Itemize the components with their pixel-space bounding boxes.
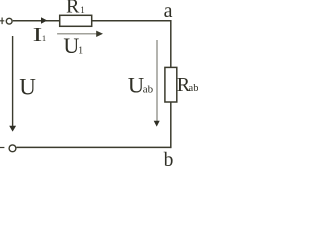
resistor R1	[60, 15, 92, 26]
terminal circle bottom-left (-)	[9, 145, 16, 152]
svg-text:1: 1	[42, 33, 46, 43]
svg-text:Uab: Uab	[128, 72, 154, 97]
wire right lower (Rab down to corner b)	[170, 102, 172, 148]
voltage arrow Uab	[154, 40, 160, 127]
resistor Rab	[165, 67, 177, 102]
terminal - sign	[0, 147, 4, 149]
svg-text:a: a	[164, 0, 173, 22]
svg-text:b: b	[164, 150, 174, 167]
svg-text:U: U	[19, 74, 36, 99]
svg-text:R1: R1	[66, 0, 85, 18]
svg-text:I: I	[33, 24, 43, 46]
svg-text:U1: U1	[63, 33, 83, 58]
wire top from R1 to corner a	[92, 20, 172, 22]
wire bottom from corner b to - terminal	[17, 146, 172, 148]
wire top-left from + terminal to R1	[13, 20, 60, 22]
svg-text:Rab: Rab	[177, 74, 198, 96]
terminal + sign	[0, 18, 4, 25]
voltage arrow U	[9, 36, 16, 132]
terminal circle top-left (+)	[6, 18, 12, 24]
current arrow I1 on top wire	[41, 17, 47, 23]
wire right upper (a down to Rab)	[170, 20, 172, 67]
voltage arrow U1	[57, 31, 103, 37]
